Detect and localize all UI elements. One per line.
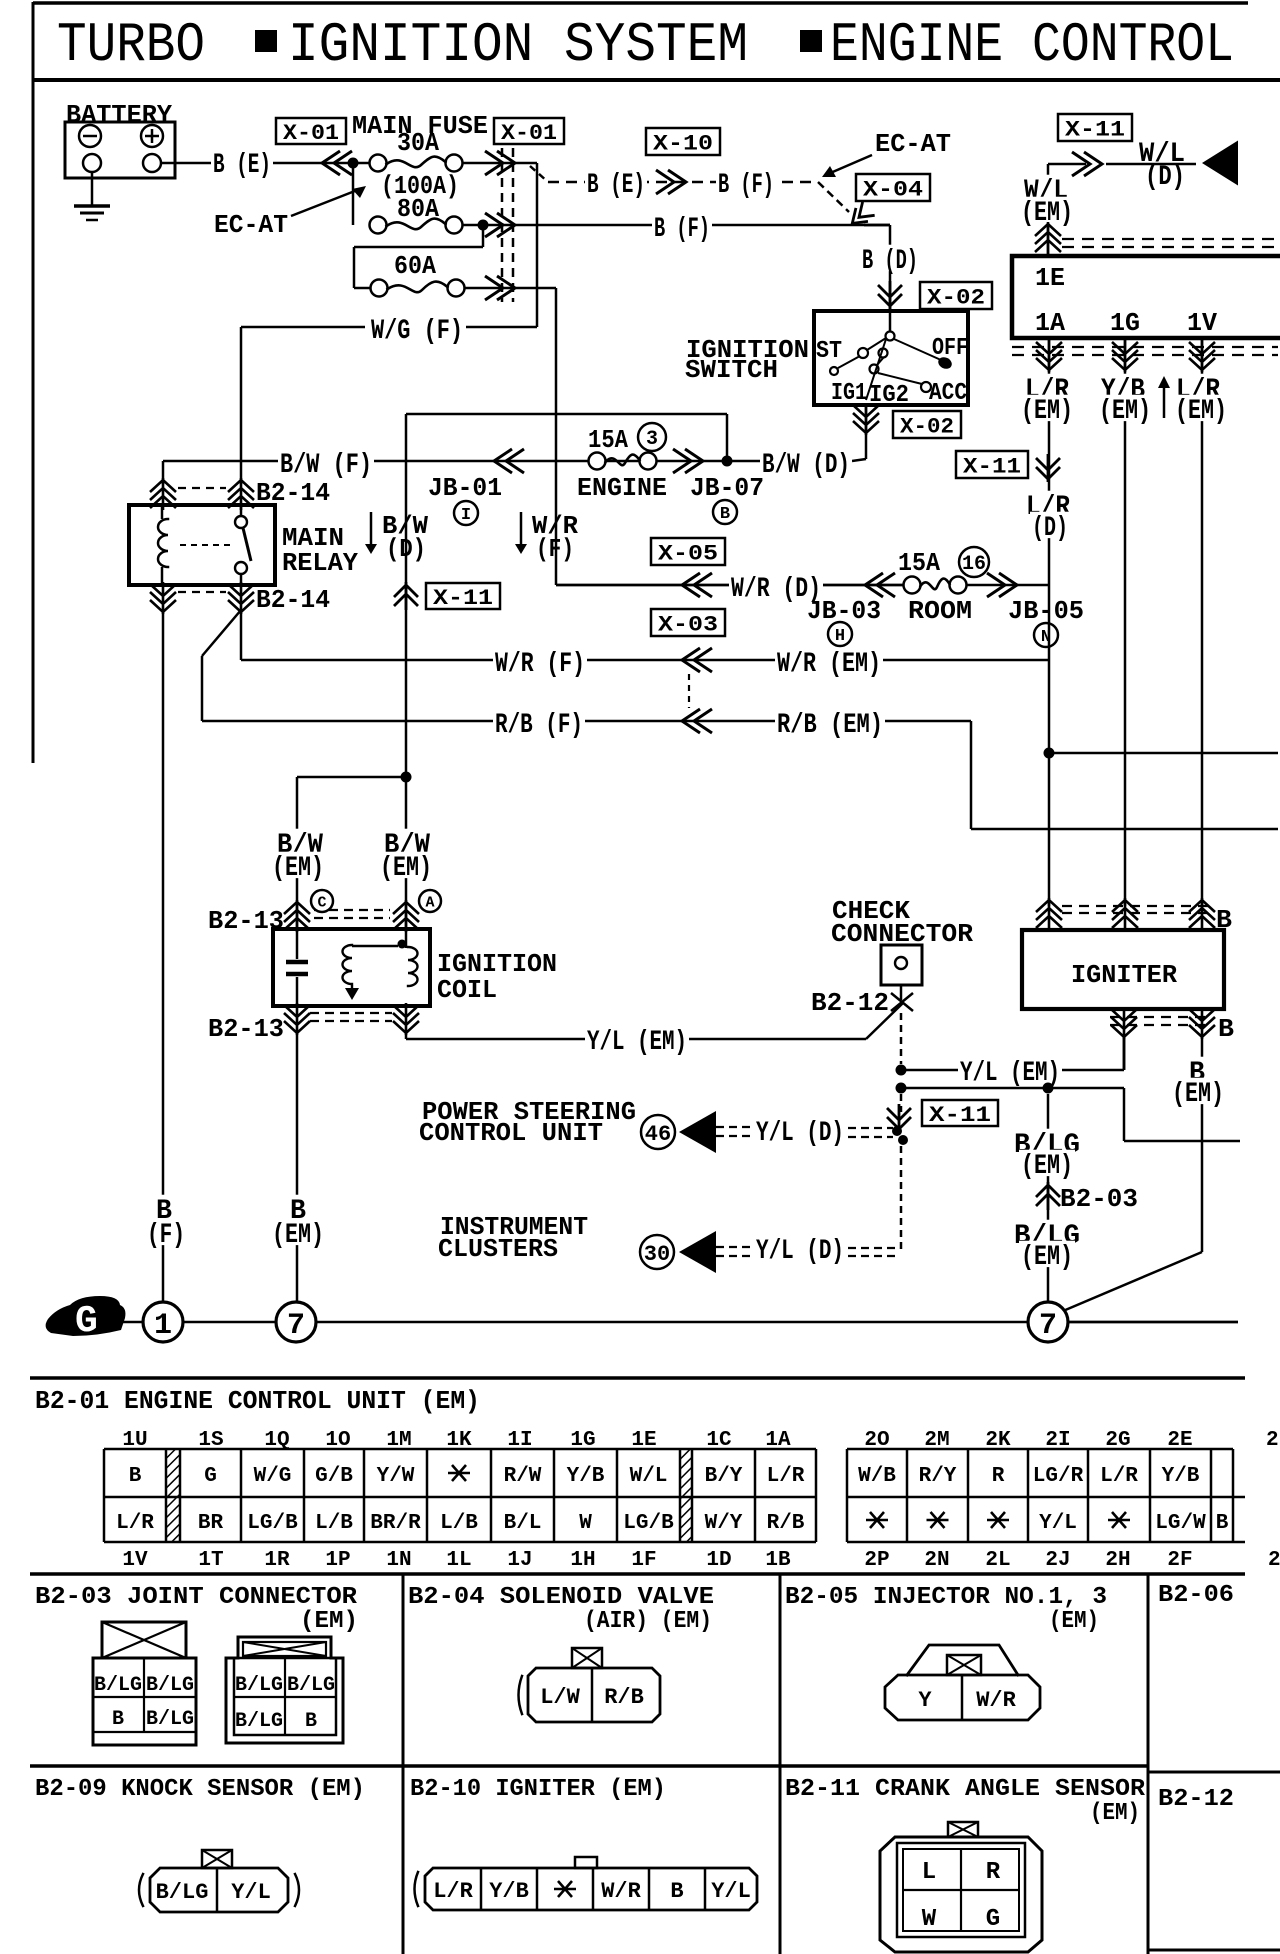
svg-text:Y: Y xyxy=(918,1688,932,1713)
svg-text:2F: 2F xyxy=(1167,1549,1192,1572)
svg-text:X-04: X-04 xyxy=(863,177,923,202)
svg-text:1Q: 1Q xyxy=(264,1429,289,1452)
svg-text:W/R: W/R xyxy=(976,1688,1016,1713)
svg-text:(D): (D) xyxy=(386,534,426,564)
svg-text:(F): (F) xyxy=(536,534,574,564)
svg-text:(EM): (EM) xyxy=(272,853,324,884)
svg-text:L/R: L/R xyxy=(1100,1465,1138,1488)
svg-text:Y/L: Y/L xyxy=(231,1880,271,1905)
svg-text:(EM): (EM) xyxy=(300,1608,358,1635)
svg-text:EC-AT: EC-AT xyxy=(875,129,951,159)
svg-text:LG/B: LG/B xyxy=(247,1512,298,1535)
svg-text:1B: 1B xyxy=(765,1549,791,1572)
svg-text:(EM): (EM) xyxy=(1175,396,1227,427)
svg-text:G: G xyxy=(986,1906,1000,1933)
svg-text:(EM): (EM) xyxy=(1021,1242,1073,1273)
svg-text:1C: 1C xyxy=(706,1429,732,1452)
svg-text:W/R (EM): W/R (EM) xyxy=(777,649,881,680)
svg-text:B: B xyxy=(1216,1512,1229,1535)
svg-text:R: R xyxy=(992,1465,1005,1488)
svg-text:46: 46 xyxy=(645,1122,671,1147)
svg-text:TURBO: TURBO xyxy=(57,13,205,77)
svg-text:2I: 2I xyxy=(1045,1429,1070,1452)
svg-text:G: G xyxy=(204,1465,217,1488)
svg-text:W/B: W/B xyxy=(858,1465,896,1488)
svg-text:X-11: X-11 xyxy=(963,454,1021,479)
svg-text:Y/B: Y/B xyxy=(489,1879,529,1904)
svg-text:R/B: R/B xyxy=(604,1685,644,1710)
svg-text:JB-01: JB-01 xyxy=(428,473,502,503)
svg-text:W: W xyxy=(579,1512,592,1535)
svg-text:1E: 1E xyxy=(631,1429,656,1452)
svg-text:C: C xyxy=(317,894,326,911)
svg-text:(EM): (EM) xyxy=(1099,396,1151,427)
svg-text:1D: 1D xyxy=(706,1549,731,1572)
svg-text:H: H xyxy=(835,627,845,646)
svg-text:B2-12: B2-12 xyxy=(811,988,889,1018)
svg-text:Y/W: Y/W xyxy=(377,1465,415,1488)
svg-text:X-02: X-02 xyxy=(927,285,985,310)
svg-text:(EM): (EM) xyxy=(1090,1800,1140,1827)
svg-text:B (F): B (F) xyxy=(718,170,774,201)
svg-text:B/LG: B/LG xyxy=(235,1674,283,1697)
svg-text:R/W: R/W xyxy=(504,1465,542,1488)
svg-text:1G: 1G xyxy=(570,1429,595,1452)
svg-text:B2-09 KNOCK SENSOR (EM): B2-09 KNOCK SENSOR (EM) xyxy=(35,1776,365,1803)
svg-text:2E: 2E xyxy=(1167,1429,1192,1452)
svg-text:B2-03: B2-03 xyxy=(1060,1184,1138,1214)
svg-text:1H: 1H xyxy=(570,1549,595,1572)
svg-text:B2-12: B2-12 xyxy=(1158,1786,1234,1813)
svg-text:(EM): (EM) xyxy=(1021,396,1073,427)
svg-text:W/G: W/G xyxy=(254,1465,292,1488)
svg-text:W/Y: W/Y xyxy=(705,1512,743,1535)
svg-text:L/B: L/B xyxy=(315,1512,353,1535)
svg-text:G: G xyxy=(75,1300,98,1343)
svg-text:B: B xyxy=(305,1710,317,1733)
svg-text:ROOM: ROOM xyxy=(908,596,972,626)
svg-text:X-05: X-05 xyxy=(658,541,718,566)
svg-text:Y/B: Y/B xyxy=(567,1465,605,1488)
svg-text:IG2: IG2 xyxy=(869,382,909,409)
svg-text:2P: 2P xyxy=(864,1549,889,1572)
svg-text:1S: 1S xyxy=(198,1429,223,1452)
svg-text:2G: 2G xyxy=(1105,1429,1130,1452)
svg-text:(EM): (EM) xyxy=(272,1220,324,1251)
svg-text:LG/W: LG/W xyxy=(1155,1512,1206,1535)
svg-text:1V: 1V xyxy=(122,1549,148,1572)
svg-text:ENGINE CONTROL: ENGINE CONTROL xyxy=(830,13,1234,77)
svg-text:B: B xyxy=(129,1465,142,1488)
svg-text:1: 1 xyxy=(154,1309,172,1343)
svg-text:R/B: R/B xyxy=(767,1512,805,1535)
svg-text:(D): (D) xyxy=(1145,162,1185,193)
svg-text:1A: 1A xyxy=(765,1429,791,1452)
svg-text:X-11: X-11 xyxy=(929,1103,991,1128)
svg-text:1I: 1I xyxy=(507,1429,532,1452)
svg-text:B2-03 JOINT CONNECTOR: B2-03 JOINT CONNECTOR xyxy=(35,1584,358,1611)
svg-text:SWITCH: SWITCH xyxy=(685,355,778,385)
svg-text:IGNITER: IGNITER xyxy=(1071,960,1177,990)
svg-text:1T: 1T xyxy=(198,1549,223,1572)
svg-text:IG1: IG1 xyxy=(831,380,867,407)
svg-text:W/L: W/L xyxy=(630,1465,668,1488)
svg-text:30A: 30A xyxy=(397,128,439,158)
svg-text:COIL: COIL xyxy=(437,975,497,1005)
svg-text:CONTROL UNIT: CONTROL UNIT xyxy=(419,1118,603,1148)
svg-text:OFF: OFF xyxy=(932,335,968,362)
svg-text:(D): (D) xyxy=(1032,513,1068,544)
svg-text:B (E): B (E) xyxy=(587,170,645,201)
svg-text:B/LG: B/LG xyxy=(287,1674,335,1697)
svg-text:EC-AT: EC-AT xyxy=(214,210,288,240)
svg-text:(AIR) (EM): (AIR) (EM) xyxy=(584,1608,712,1635)
svg-text:Y/L (D): Y/L (D) xyxy=(756,1236,844,1267)
svg-text:X-01: X-01 xyxy=(283,121,339,146)
svg-text:R: R xyxy=(986,1859,1001,1886)
svg-text:CLUSTERS: CLUSTERS xyxy=(438,1234,558,1264)
svg-text:2J: 2J xyxy=(1045,1549,1070,1572)
svg-text:BR/R: BR/R xyxy=(370,1512,421,1535)
svg-text:1P: 1P xyxy=(325,1549,350,1572)
svg-text:X-11: X-11 xyxy=(1065,117,1125,142)
svg-text:2L: 2L xyxy=(985,1549,1010,1572)
svg-text:B2-13: B2-13 xyxy=(208,1014,284,1044)
svg-text:1N: 1N xyxy=(386,1549,411,1572)
svg-text:I: I xyxy=(461,506,471,525)
svg-text:ST: ST xyxy=(816,338,842,365)
svg-text:ENGINE: ENGINE xyxy=(577,473,667,503)
svg-text:2N: 2N xyxy=(924,1549,949,1572)
svg-text:JB-07: JB-07 xyxy=(690,473,764,503)
svg-text:L/W: L/W xyxy=(540,1685,580,1710)
svg-text:X-03: X-03 xyxy=(658,612,718,637)
svg-text:L/R: L/R xyxy=(767,1465,805,1488)
svg-text:L/R: L/R xyxy=(433,1879,473,1904)
svg-text:LG/B: LG/B xyxy=(623,1512,674,1535)
svg-text:3: 3 xyxy=(646,428,658,451)
svg-text:B/Y: B/Y xyxy=(705,1465,743,1488)
svg-text:1V: 1V xyxy=(1187,308,1217,338)
svg-text:R/B (EM): R/B (EM) xyxy=(777,710,883,741)
svg-text:B/LG: B/LG xyxy=(146,1708,194,1731)
svg-text:1J: 1J xyxy=(507,1549,532,1572)
svg-text:2: 2 xyxy=(1268,1549,1280,1572)
svg-text:B2-14: B2-14 xyxy=(256,585,330,615)
svg-text:W/R: W/R xyxy=(601,1879,641,1904)
svg-text:B: B xyxy=(720,505,730,524)
svg-text:16: 16 xyxy=(962,553,986,576)
svg-text:B/W (D): B/W (D) xyxy=(762,450,850,481)
svg-text:B/LG: B/LG xyxy=(94,1674,142,1697)
svg-text:X-11: X-11 xyxy=(433,586,493,611)
svg-text:B: B xyxy=(670,1879,683,1904)
svg-text:B/W (F): B/W (F) xyxy=(280,450,372,481)
svg-text:1O: 1O xyxy=(325,1429,350,1452)
svg-text:7: 7 xyxy=(1039,1309,1057,1343)
svg-text:X-01: X-01 xyxy=(501,121,557,146)
svg-text:B2-05 INJECTOR NO.1, 3: B2-05 INJECTOR NO.1, 3 xyxy=(785,1584,1107,1611)
svg-text:RELAY: RELAY xyxy=(282,548,358,578)
svg-text:X-02: X-02 xyxy=(900,414,954,439)
svg-text:1K: 1K xyxy=(446,1429,472,1452)
svg-text:Y/L (EM): Y/L (EM) xyxy=(587,1027,687,1058)
svg-text:1U: 1U xyxy=(122,1429,147,1452)
svg-text:L/B: L/B xyxy=(440,1512,478,1535)
svg-text:30: 30 xyxy=(644,1242,670,1267)
svg-text:IGNITION SYSTEM: IGNITION SYSTEM xyxy=(288,13,748,77)
svg-text:7: 7 xyxy=(287,1309,305,1343)
svg-text:L/R: L/R xyxy=(116,1512,154,1535)
svg-text:W/R (F): W/R (F) xyxy=(495,649,585,680)
svg-text:B: B xyxy=(1218,1014,1234,1044)
svg-text:1R: 1R xyxy=(264,1549,290,1572)
svg-text:2: 2 xyxy=(1266,1429,1279,1452)
svg-text:B/LG: B/LG xyxy=(235,1710,283,1733)
svg-text:W/G (F): W/G (F) xyxy=(371,316,463,347)
svg-text:B: B xyxy=(112,1708,124,1731)
svg-text:B/LG: B/LG xyxy=(156,1880,209,1905)
svg-text:X-10: X-10 xyxy=(653,131,713,156)
svg-text:1F: 1F xyxy=(631,1549,656,1572)
svg-text:G/B: G/B xyxy=(315,1465,353,1488)
svg-text:2M: 2M xyxy=(924,1429,949,1452)
svg-text:B2-11 CRANK ANGLE SENSOR: B2-11 CRANK ANGLE SENSOR xyxy=(785,1776,1146,1803)
svg-text:B (D): B (D) xyxy=(862,246,918,277)
svg-text:B2-01 ENGINE CONTROL UNIT (EM): B2-01 ENGINE CONTROL UNIT (EM) xyxy=(35,1386,480,1416)
svg-text:Y/L (D): Y/L (D) xyxy=(756,1118,844,1149)
svg-text:B2-06: B2-06 xyxy=(1158,1582,1234,1609)
svg-text:L: L xyxy=(922,1859,936,1886)
svg-text:1G: 1G xyxy=(1110,308,1140,338)
svg-text:LG/R: LG/R xyxy=(1033,1465,1084,1488)
svg-text:1M: 1M xyxy=(386,1429,411,1452)
svg-text:2O: 2O xyxy=(864,1429,889,1452)
svg-text:B2-04 SOLENOID VALVE: B2-04 SOLENOID VALVE xyxy=(408,1584,714,1611)
svg-text:A: A xyxy=(425,894,434,911)
svg-text:B (F): B (F) xyxy=(654,214,710,245)
svg-text:2H: 2H xyxy=(1105,1549,1130,1572)
svg-text:(EM): (EM) xyxy=(1172,1079,1224,1110)
svg-text:1L: 1L xyxy=(446,1549,471,1572)
svg-text:(EM): (EM) xyxy=(380,853,432,884)
svg-text:60A: 60A xyxy=(394,251,436,281)
svg-text:ACC: ACC xyxy=(929,380,967,407)
svg-text:(EM): (EM) xyxy=(1049,1608,1099,1635)
svg-text:BR: BR xyxy=(198,1512,224,1535)
svg-text:R/B (F): R/B (F) xyxy=(495,710,583,741)
svg-text:Y/B: Y/B xyxy=(1162,1465,1200,1488)
svg-text:Y/L: Y/L xyxy=(1039,1512,1077,1535)
svg-text:1E: 1E xyxy=(1035,263,1065,293)
svg-text:JB-05: JB-05 xyxy=(1008,596,1084,626)
svg-text:15A: 15A xyxy=(588,425,628,455)
svg-text:B2-10 IGNITER (EM): B2-10 IGNITER (EM) xyxy=(410,1776,666,1803)
svg-text:15A: 15A xyxy=(898,548,940,578)
svg-text:(EM): (EM) xyxy=(1021,1151,1073,1182)
svg-text:2K: 2K xyxy=(985,1429,1011,1452)
svg-text:Y/L: Y/L xyxy=(711,1879,751,1904)
svg-text:(F): (F) xyxy=(147,1220,185,1251)
svg-text:B/LG: B/LG xyxy=(146,1674,194,1697)
svg-text:R/Y: R/Y xyxy=(919,1465,957,1488)
svg-text:1A: 1A xyxy=(1035,308,1065,338)
svg-text:W: W xyxy=(922,1906,937,1933)
svg-text:B (E): B (E) xyxy=(213,150,271,181)
svg-text:B/L: B/L xyxy=(504,1512,542,1535)
